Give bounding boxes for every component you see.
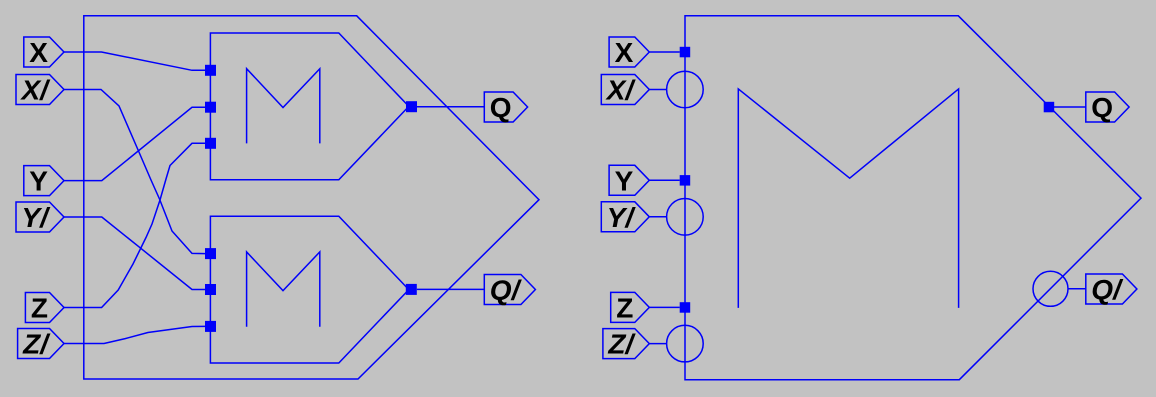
svg-text:Q/: Q/ — [490, 275, 523, 306]
svg-text:Y/: Y/ — [22, 202, 52, 233]
svg-text:Y: Y — [615, 165, 634, 196]
svg-text:Q: Q — [1091, 92, 1113, 123]
svg-text:Q/: Q/ — [1091, 274, 1124, 305]
svg-text:X: X — [615, 37, 634, 68]
svg-text:X/: X/ — [20, 75, 52, 106]
svg-text:Y: Y — [29, 166, 48, 197]
svg-text:Z: Z — [616, 292, 633, 323]
svg-text:Z/: Z/ — [22, 329, 51, 360]
svg-text:X/: X/ — [605, 75, 637, 106]
svg-text:Z/: Z/ — [607, 329, 636, 360]
svg-text:Z: Z — [31, 293, 48, 324]
svg-text:Q: Q — [490, 92, 512, 123]
svg-text:Y/: Y/ — [607, 202, 637, 233]
svg-text:X: X — [29, 37, 48, 68]
